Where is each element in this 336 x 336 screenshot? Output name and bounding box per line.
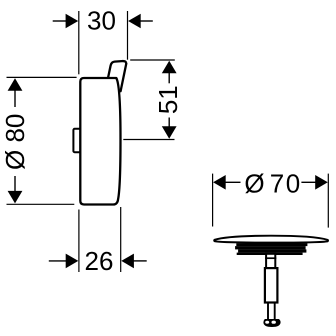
- dimension 51: top extension line: [130, 59, 175, 61]
- dimension 51: lower dim line segment: [168, 118, 170, 128]
- svg-text:51: 51: [153, 85, 183, 114]
- dimension 26: right arrow: [121, 254, 146, 269]
- dimension D80: up arrow: [8, 78, 23, 91]
- escutcheon spout lip: [108, 61, 126, 91]
- plug foot highlights: [265, 321, 269, 324]
- dimension 51: upper dim line segment: [168, 72, 170, 83]
- plug wide body: [265, 268, 278, 302]
- plug seal stack: [235, 243, 307, 255]
- dimension 30: right extension line: [127, 11, 129, 60]
- svg-text:26: 26: [85, 246, 114, 276]
- dimension D70: left extension line: [212, 174, 214, 227]
- plug neck: [266, 254, 275, 268]
- plug lower stem: [267, 303, 269, 319]
- dimension 51: up arrow: [162, 61, 177, 74]
- dimension 51: down arrow: [162, 126, 177, 139]
- dimension D70: left arrow: [213, 175, 240, 190]
- dimension D80: bottom extension line: [7, 203, 75, 205]
- dimension D80: upper dim line segment: [14, 89, 16, 107]
- dimension D80: down arrow: [8, 191, 23, 204]
- dimension 30: left arrow: [53, 14, 78, 29]
- svg-text:Ø: Ø: [244, 168, 264, 198]
- dimension 26: right extension line: [120, 207, 122, 272]
- escutcheon body (side view): [80, 78, 120, 205]
- dimension 30: left extension line: [78, 11, 80, 74]
- dimension 26: left extension line: [78, 210, 80, 273]
- svg-text:70: 70: [270, 168, 302, 198]
- svg-text:30: 30: [87, 5, 116, 35]
- svg-text:Ø 80: Ø 80: [0, 114, 30, 170]
- dimension 51: bottom extension line: [123, 139, 174, 141]
- plug neck divider: [265, 257, 276, 259]
- dimension D70: right arrow: [301, 175, 327, 190]
- plug foot: [263, 319, 280, 327]
- dimension 26: left arrow: [49, 254, 79, 269]
- dimension 30: right arrow: [128, 14, 153, 29]
- escutcheon mounting tab: [73, 129, 80, 152]
- dimension D70: right extension line: [327, 174, 329, 228]
- plug cap (disc): [214, 236, 328, 243]
- dimension D80: top extension line: [7, 76, 77, 78]
- dimension D80: lower dim line segment: [14, 176, 16, 192]
